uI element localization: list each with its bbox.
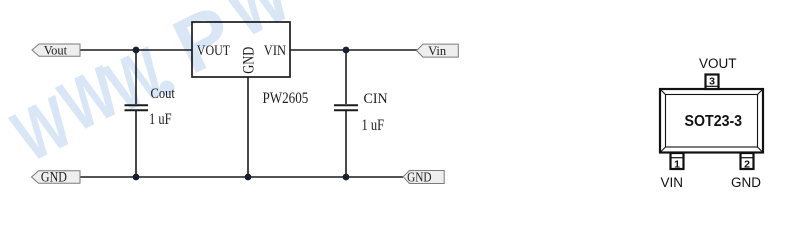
- svg-text:2: 2: [744, 159, 750, 171]
- wire: Cout branch vertical: [135, 50, 137, 177]
- pin 3: [706, 75, 719, 90]
- svg-text:1: 1: [674, 159, 680, 171]
- svg-text:SOT23-3: SOT23-3: [685, 112, 743, 130]
- node: junction Vout/Cout: [133, 47, 140, 54]
- wire: Vout tag to U1 VOUT pin: [79, 49, 192, 51]
- svg-text:GND: GND: [731, 175, 761, 190]
- wire: ground rail: [80, 176, 403, 178]
- svg-text:Vout: Vout: [44, 43, 68, 57]
- wire: U1 VIN pin to Vin tag: [290, 49, 418, 51]
- node: junction CIN/GND rail: [343, 174, 350, 181]
- net tag Vin: [417, 44, 459, 58]
- wire: U1 GND pin vertical: [247, 77, 249, 177]
- pin label GND (pin 2): [731, 175, 761, 190]
- svg-text:VIN: VIN: [661, 175, 684, 190]
- pin label VOUT (pin 3): [699, 56, 737, 71]
- SOT23-3 package body: [660, 89, 763, 153]
- svg-text:CIN: CIN: [364, 91, 388, 107]
- svg-text:VOUT: VOUT: [699, 56, 737, 71]
- svg-text:Vin: Vin: [428, 44, 447, 58]
- svg-text:GND: GND: [407, 169, 431, 184]
- node: junction Cout/GND rail: [133, 174, 140, 181]
- capacitor Cout: [125, 85, 175, 128]
- node: junction U1 GND/rail: [245, 174, 252, 181]
- svg-text:3: 3: [709, 76, 715, 88]
- watermark WWW.PW: [1, 0, 303, 177]
- IC U1 PW2605 box: [192, 22, 290, 77]
- net tag GND right: [403, 169, 444, 184]
- svg-text:PW2605: PW2605: [263, 90, 309, 107]
- node: junction Vin/CIN: [343, 47, 350, 54]
- pin label VIN (pin 1): [661, 175, 684, 190]
- value label PW2605: [263, 90, 309, 107]
- capacitor C2 CIN: [334, 91, 388, 135]
- net tag Vout: [32, 43, 80, 57]
- pin 2: [741, 153, 754, 171]
- pin 1: [671, 153, 684, 171]
- svg-text:1 uF: 1 uF: [362, 117, 385, 135]
- wire: CIN branch vertical: [345, 50, 347, 177]
- net tag GND left: [32, 168, 81, 184]
